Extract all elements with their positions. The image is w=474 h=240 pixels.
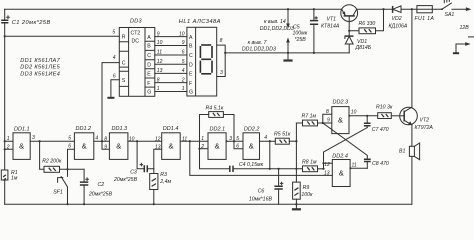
wire drop from R5 input node to C4 line (269, 141, 271, 169)
wire DD1.2 out to DD1.3 (94, 140, 110, 142)
svg-text:8: 8 (220, 38, 223, 44)
svg-text:&: & (168, 142, 173, 151)
svg-text:10: 10 (157, 40, 163, 46)
gate DD1.4 (155, 126, 187, 159)
svg-text:DD1.4: DD1.4 (163, 126, 179, 132)
wire ground rail middle (225, 52, 349, 54)
svg-text:HL1 АЛС348А: HL1 АЛС348А (179, 19, 221, 25)
resistor R2 (42, 158, 62, 172)
wire top +12V rail (5, 8, 468, 10)
svg-text:R: R (122, 35, 126, 41)
svg-text:Д814Б: Д814Б (355, 45, 372, 51)
wire sensor node up to DD1.2 pin6 (68, 149, 75, 176)
wire VT2 emitter down (411, 125, 413, 146)
svg-text:2,4м: 2,4м (159, 179, 171, 185)
svg-text:С6: С6 (258, 189, 265, 195)
svg-text:B1: B1 (399, 148, 405, 154)
svg-text:DD2.1: DD2.1 (210, 127, 226, 133)
wire branch to R2 (40, 141, 44, 169)
resistor R9 (293, 182, 313, 199)
arrow to pin 14 supply (260, 8, 294, 32)
ground symbol mid rail (287, 53, 289, 60)
svg-text:C2: C2 (98, 182, 105, 188)
svg-text:C: C (122, 61, 126, 67)
svg-text:C: C (147, 53, 151, 59)
svg-text:&: & (82, 142, 87, 151)
capacitor C2 (80, 169, 113, 204)
svg-text:C8 470: C8 470 (372, 161, 389, 167)
svg-text:1: 1 (201, 136, 204, 142)
gate DD1.3 (104, 126, 134, 159)
wires HL1 pins 8 and 3 (217, 45, 226, 76)
wire DD1.4 out to DD2.1 (180, 140, 208, 142)
svg-text:10: 10 (179, 31, 185, 37)
svg-text:&: & (338, 115, 343, 124)
svg-text:КТ972А: КТ972А (415, 125, 434, 131)
resistor R1 (1, 170, 18, 182)
resistor R10 (376, 105, 393, 119)
svg-text:4: 4 (264, 135, 267, 141)
wire gating drop to DD2.4 pin13 (190, 141, 332, 175)
svg-text:G: G (147, 90, 151, 96)
svg-text:4: 4 (113, 55, 116, 61)
svg-text:DD3: DD3 (130, 19, 143, 25)
resistor R8 (302, 159, 324, 171)
node DD1.1 input pins on bus (4, 140, 6, 142)
transistor VT2 (400, 107, 434, 131)
svg-text:FU1 1А: FU1 1А (415, 16, 435, 22)
diode VD2 (389, 6, 408, 30)
svg-text:4: 4 (95, 136, 98, 142)
wire left bus vertical (4, 9, 6, 204)
svg-text:2: 2 (181, 77, 185, 83)
transistor VT1 (321, 5, 358, 31)
wires DD3 outputs to HL1 (155, 37, 187, 92)
svg-text:13: 13 (157, 68, 163, 74)
wire R3/C3 node to DD1.4 pin13 (154, 149, 162, 169)
svg-text:DC: DC (132, 39, 140, 45)
wire DD2.4 output to C8 (350, 167, 367, 169)
svg-text:DD2.4: DD2.4 (332, 154, 348, 160)
svg-text:DD1,DD2,DD3: DD1,DD2,DD3 (242, 46, 276, 52)
svg-text:1: 1 (157, 86, 160, 92)
wire B1 to ground rail (411, 156, 413, 204)
svg-text:SF1: SF1 (53, 189, 63, 195)
svg-text:F: F (189, 81, 192, 87)
svg-text:DD1.1: DD1.1 (14, 127, 30, 133)
svg-text:SA1: SA1 (445, 12, 455, 18)
svg-text:8: 8 (157, 77, 160, 83)
svg-text:5: 5 (182, 59, 185, 65)
wire DD1.3 out to DD1.4 (128, 140, 162, 142)
battery return arrow and ground (453, 37, 474, 54)
svg-text:VT1: VT1 (327, 17, 337, 23)
svg-text:R9: R9 (303, 185, 310, 191)
svg-text:3: 3 (32, 135, 35, 141)
svg-text:B: B (147, 44, 151, 50)
svg-text:*25В: *25В (295, 37, 307, 43)
svg-text:E: E (147, 72, 151, 78)
display HL1 (179, 19, 221, 96)
svg-text:R7 1м: R7 1м (302, 114, 317, 120)
svg-text:8: 8 (104, 136, 107, 142)
resistor R4 (200, 106, 235, 149)
fuse FU1 (415, 6, 435, 23)
svg-text:G: G (189, 90, 193, 96)
gate DD1.2 (68, 126, 98, 160)
svg-text:R4 5,1к: R4 5,1к (206, 106, 224, 112)
svg-text:C: C (189, 53, 193, 59)
svg-text:VD2: VD2 (392, 16, 402, 22)
resistor R5 (274, 131, 291, 144)
wire DD1.3 input tie (102, 141, 109, 149)
svg-text:C7 470: C7 470 (372, 127, 389, 133)
resistor R7 (296, 114, 322, 126)
ground below rail (295, 204, 297, 208)
svg-text:12: 12 (157, 59, 163, 65)
wire DD2.3 output (349, 115, 378, 117)
svg-text:КД106А: КД106А (389, 24, 408, 30)
svg-text:12В: 12В (460, 25, 470, 31)
svg-text:9: 9 (182, 40, 185, 46)
capacitor C3 (113, 141, 154, 183)
svg-text:&: & (339, 168, 344, 177)
speaker B1 (399, 143, 420, 160)
svg-text:DD2.2: DD2.2 (244, 127, 260, 133)
wire DD2.2 out (260, 140, 276, 142)
counter DD3 (119, 19, 155, 97)
svg-text:R2 200к: R2 200к (42, 158, 62, 164)
svg-text:F: F (147, 81, 150, 87)
svg-text:13: 13 (324, 170, 330, 176)
svg-text:&: & (215, 142, 220, 151)
svg-text:1: 1 (182, 86, 185, 92)
svg-text:С1 20мк*25В: С1 20мк*25В (12, 20, 51, 26)
svg-text:DD3 К561ИЕ4: DD3 К561ИЕ4 (20, 72, 60, 78)
gate DD2.3 (326, 99, 357, 133)
svg-text:S: S (122, 78, 126, 84)
svg-text:6: 6 (182, 50, 185, 56)
svg-text:12: 12 (155, 136, 161, 142)
svg-text:R5 51к: R5 51к (274, 131, 291, 137)
svg-text:R3: R3 (160, 172, 167, 178)
svg-text:DD2.3: DD2.3 (333, 99, 350, 105)
wire VT2 collector to supply (411, 9, 413, 107)
svg-text:20мк*25В: 20мк*25В (88, 192, 113, 198)
svg-text:С5: С5 (293, 24, 300, 30)
svg-text:A: A (147, 35, 151, 41)
svg-text:2: 2 (200, 144, 204, 150)
wire cross coupling DD2.3 input to C8 (323, 123, 368, 159)
svg-text:R6 330: R6 330 (359, 21, 376, 27)
capacitor C7 (364, 116, 389, 133)
svg-text:VD1: VD1 (357, 39, 367, 45)
gate DD2.1 (200, 127, 232, 160)
svg-text:A: A (189, 35, 193, 41)
svg-text:DD1 К561ЛА7: DD1 К561ЛА7 (20, 58, 60, 64)
svg-text:10мк*16В: 10мк*16В (249, 196, 273, 202)
svg-text:&: & (249, 142, 254, 151)
pin labels HL1 side (179, 31, 185, 92)
svg-text:9: 9 (157, 31, 160, 37)
svg-text:DD1,DD2,DD3: DD1,DD2,DD3 (260, 26, 294, 32)
arrow +12V supply (466, 7, 471, 11)
resistor R3 (150, 172, 172, 190)
wire DD2.2 input tie (234, 141, 243, 149)
seven segment digit (200, 45, 212, 74)
capacitor C6 (249, 168, 283, 205)
svg-text:R8 1м: R8 1м (302, 159, 317, 165)
svg-text:6: 6 (236, 143, 239, 149)
wire cross coupling C7 to DD2.4 input (324, 128, 368, 164)
wire DD2.3 input tie (323, 114, 332, 123)
svg-text:13: 13 (155, 145, 161, 151)
resistor R6 (349, 9, 383, 34)
svg-text:DD1.2: DD1.2 (76, 126, 92, 132)
capacitor C5 (293, 8, 319, 54)
capacitor C4 (230, 162, 264, 172)
svg-text:5: 5 (112, 30, 115, 36)
svg-text:5: 5 (236, 136, 239, 142)
svg-text:2: 2 (6, 144, 10, 150)
svg-text:1м: 1м (11, 175, 18, 181)
svg-text:10: 10 (351, 109, 357, 115)
capacitor C1 (1, 16, 51, 26)
gate DD2.2 (236, 127, 267, 160)
wire DD2.1 out to DD2.2 (226, 140, 243, 142)
wire bottom ground rail (5, 203, 412, 205)
svg-text:E: E (189, 72, 193, 78)
svg-text:к выв. 14: к выв. 14 (264, 19, 286, 25)
svg-text:4: 4 (182, 68, 185, 74)
svg-text:DD1.3: DD1.3 (112, 126, 129, 132)
svg-text:VT2: VT2 (420, 118, 430, 124)
svg-text:B: B (189, 44, 193, 50)
wire reset rail to DD3 R (5, 35, 120, 37)
svg-text:6: 6 (113, 73, 116, 79)
svg-text:9: 9 (104, 145, 107, 151)
wire mid vertical feed bus (295, 123, 297, 182)
svg-text:D: D (147, 62, 151, 68)
svg-text:1: 1 (7, 136, 10, 142)
svg-text:DD2 К561ЛЕ5: DD2 К561ЛЕ5 (20, 65, 60, 71)
svg-text:&: & (116, 142, 121, 151)
wire DD3 S to ground (111, 80, 119, 97)
svg-text:&: & (19, 142, 24, 151)
svg-text:CT2: CT2 (131, 30, 141, 36)
node VT2 supply tap (411, 8, 413, 10)
capacitor C4 line from DD2.1 pin2 (200, 149, 303, 169)
svg-text:к выв. 7: к выв. 7 (248, 40, 268, 46)
pin labels DD3 side (157, 31, 163, 92)
IC list text (20, 58, 60, 78)
arrow to pin 7 ground (242, 38, 290, 55)
wire riser to DD3 clock C (102, 63, 119, 142)
svg-text:C4 0,15мк: C4 0,15мк (239, 162, 264, 168)
svg-text:6: 6 (68, 144, 71, 150)
wire DD2.1 pin2 node (200, 148, 209, 150)
wire DD2.4 input node (324, 163, 333, 169)
switch SF1 (53, 177, 67, 205)
switch SA1 (441, 0, 454, 18)
gate DD2.4 (324, 154, 357, 187)
wire DD1.1 out to DD1.2 (30, 140, 74, 142)
svg-text:20мк*25В: 20мк*25В (113, 177, 138, 183)
svg-text:3: 3 (220, 70, 223, 76)
svg-text:5: 5 (68, 136, 71, 142)
svg-text:100мк: 100мк (293, 30, 308, 36)
capacitor C8 (364, 159, 389, 168)
svg-text:C3: C3 (130, 170, 137, 176)
gate DD1.1 (6, 127, 35, 160)
svg-text:R10 3к: R10 3к (376, 105, 393, 111)
svg-text:11: 11 (352, 163, 357, 169)
wire R2 right to sensor node and C2 (60, 168, 85, 170)
zener diode VD1 (345, 31, 372, 53)
svg-text:D: D (189, 62, 193, 68)
svg-text:100к: 100к (301, 192, 313, 198)
svg-text:11: 11 (157, 50, 162, 56)
svg-text:КТ814А: КТ814А (321, 24, 340, 30)
